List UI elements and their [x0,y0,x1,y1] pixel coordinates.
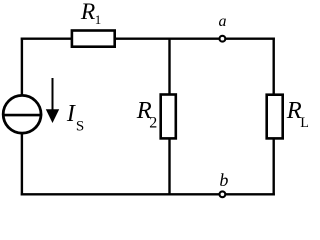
wire: R2 branch upper (top wire down to R2) [168,38,170,96]
resistor RL (vertical box) [267,95,283,139]
svg-text:S: S [76,119,84,135]
arrow: IS current direction (downward) [46,78,59,123]
svg-text:L: L [300,115,308,131]
wire: right vertical lower (RL down to bottom wire) [273,139,275,196]
svg-text:b: b [219,170,228,190]
terminal b (open circle) [220,191,226,197]
svg-text:a: a [219,13,227,30]
wire: left vertical lower (current source down to bottom wire) [21,134,23,196]
wire: right vertical upper (top wire down to RL) [273,38,275,96]
current source IS (circle with horizontal diameter bar) [2,95,42,133]
svg-text:I: I [66,101,76,127]
svg-text:1: 1 [95,12,102,27]
svg-text:2: 2 [149,115,157,132]
label R1 [80,0,101,27]
resistor R2 (vertical box) [161,95,176,139]
label IS [66,101,84,135]
wire: top horizontal (left node to node a net) [21,38,275,40]
wire: R2 branch lower (R2 down to bottom wire) [168,139,170,196]
label RL [286,97,309,131]
wire: left vertical upper (top wire down to current source) [21,38,23,96]
svg-text:R: R [80,0,95,25]
terminal a (open circle) [220,36,226,42]
label R2 [136,97,157,132]
resistor R1 (horizontal box) [72,31,115,47]
wire: bottom horizontal (node b net) [21,193,275,195]
